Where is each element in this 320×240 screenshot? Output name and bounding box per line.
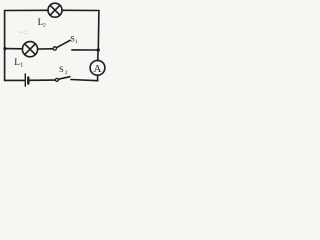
label L1: [14, 58, 23, 69]
svg-text:2: 2: [65, 70, 68, 76]
switch S1: [53, 40, 70, 50]
lamp L1: [22, 42, 37, 57]
node: junction of L1 branch on left rail: [3, 47, 6, 50]
label S1: [70, 34, 78, 45]
wire: battery to switch S2: [30, 79, 55, 81]
wire: top-left horizontal segment to lamp L2: [5, 9, 49, 11]
faint print bleed-through marks (decor): [20, 30, 28, 34]
wire: switch S2 to bottom-right corner: [71, 80, 98, 81]
node: junction of L1 branch on right rail: [97, 48, 100, 51]
svg-text:S: S: [70, 34, 74, 43]
label S2: [59, 64, 68, 76]
wire: lamp L1 to switch S1: [38, 48, 53, 50]
wire: right rail from junction to ammeter: [97, 50, 99, 61]
lamp L2: [48, 3, 62, 17]
svg-text:2: 2: [43, 22, 46, 28]
wire: top-right horizontal segment from lamp L2 to corner: [62, 9, 99, 11]
label L2: [38, 18, 46, 29]
wire: right vertical rail upper (corner to junction): [97, 11, 100, 51]
wire: right rail from ammeter to bottom corner: [97, 75, 99, 81]
svg-text:S: S: [59, 64, 64, 74]
ammeter A: [90, 60, 105, 75]
svg-text:A: A: [94, 63, 102, 75]
switch S2: [55, 77, 70, 82]
wire: left vertical rail: [4, 11, 6, 81]
wire: bottom-left segment to battery: [5, 79, 25, 81]
wire: middle branch from left junction to lamp L1: [5, 48, 22, 50]
wire: switch S1 to right junction: [72, 49, 98, 51]
battery (cell): [25, 74, 28, 86]
svg-text:1: 1: [20, 63, 23, 69]
